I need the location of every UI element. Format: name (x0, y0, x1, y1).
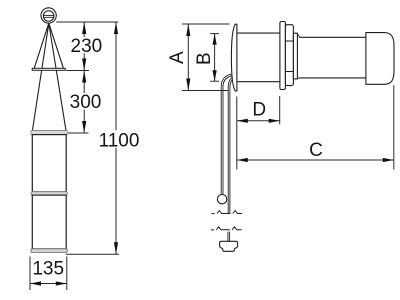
radar cone outer (34, 23, 63, 68)
svg-text:300: 300 (70, 92, 102, 113)
dimension C extension lines (237, 85, 394, 169)
bearing ring face lines (285, 41, 293, 72)
extension line cone base (66, 70, 89, 72)
svg-text:230: 230 (71, 36, 103, 57)
cord end hook (234, 80, 236, 88)
pull cord right pair (228, 77, 234, 214)
ring inner chords (44, 15, 54, 17)
drum body (237, 33, 280, 82)
dimension D extension line right (279, 96, 281, 125)
svg-text:D: D (252, 100, 266, 121)
step collar (293, 33, 297, 79)
dimension 1100 text (98, 130, 142, 151)
svg-text:135: 135 (32, 259, 64, 280)
dimension C line (237, 159, 394, 161)
break symbol upper (212, 211, 243, 214)
dimension 230 line (83, 22, 85, 71)
dimension 1100 arrows (114, 22, 118, 254)
float top band (31, 131, 67, 135)
dimension A line (187, 24, 189, 91)
dimension 300 text (68, 92, 102, 113)
dimension 300 line (83, 71, 85, 134)
dimension 230 text (69, 36, 103, 57)
cord ring (217, 195, 226, 204)
dimension B arrows (213, 34, 217, 82)
bearing ring (285, 25, 293, 86)
dimension D arrows (237, 119, 280, 123)
mast inner taper lines (32, 23, 66, 130)
float lower section (32, 195, 66, 249)
tube (299, 37, 366, 78)
dimension C arrows (237, 158, 394, 162)
end cap (366, 33, 394, 85)
svg-text:C: C (309, 140, 323, 161)
float middle band (31, 192, 67, 195)
svg-text:B: B (194, 52, 215, 65)
buoy top ring outer circle (41, 8, 56, 23)
dimension 1100 line (115, 22, 117, 254)
dimension 135 arrows (30, 281, 67, 285)
float bottom band (31, 249, 67, 253)
break symbol lower (211, 227, 242, 230)
pull handle (220, 241, 238, 251)
dimension 135 extension lines (30, 257, 67, 291)
buoy top ring inner circle (43, 11, 54, 22)
dimension A arrows (186, 24, 190, 91)
dimension D line (237, 120, 280, 122)
cord stub (228, 232, 230, 241)
cone base bar (32, 68, 65, 70)
dimension 135 line (30, 283, 67, 285)
dimension B line (214, 34, 216, 82)
dimension B ticks (210, 34, 219, 82)
extension line float top (68, 132, 89, 134)
dimension 230 arrows (82, 22, 86, 71)
dimension 300 arrows (82, 71, 86, 134)
extension line float bottom (66, 253, 119, 255)
dimension A extension lines (182, 24, 230, 91)
pull cord left pair (221, 74, 234, 195)
svg-text:A: A (167, 51, 188, 64)
svg-text:1100: 1100 (99, 130, 140, 151)
roller right flange disc (280, 22, 286, 90)
float upper section (32, 135, 66, 192)
roller left flange lens (231, 24, 237, 91)
collar bevels (297, 34, 299, 79)
extension line top (56, 21, 118, 23)
